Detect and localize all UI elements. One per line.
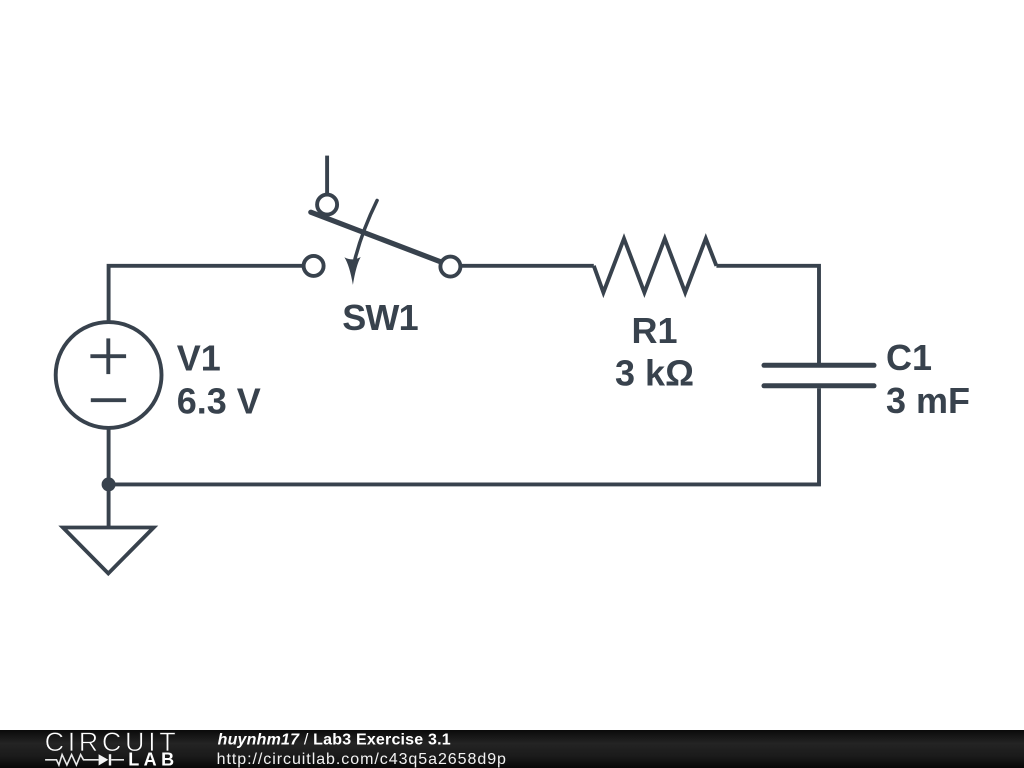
switch SW1 actuation arrow bbox=[344, 200, 377, 285]
wire: bottom return to V1 bbox=[109, 482, 821, 486]
wire: capacitor bottom lead bbox=[817, 388, 821, 484]
svg-text:3 kΩ: 3 kΩ bbox=[615, 352, 694, 393]
wire: resistor to capacitor C1 top bbox=[716, 266, 819, 363]
svg-text:huynhm17 / Lab3 Exercise 3.1: huynhm17 / Lab3 Exercise 3.1 bbox=[218, 732, 451, 749]
svg-text:3 mF: 3 mF bbox=[886, 380, 970, 421]
CircuitLab logo resistor-diode glyph bbox=[45, 754, 124, 765]
V1 minus sign bbox=[91, 398, 126, 402]
voltage source V1 bbox=[56, 322, 162, 428]
junction node bbox=[102, 477, 116, 491]
svg-text:R1: R1 bbox=[631, 310, 677, 351]
switch SW1 blade bbox=[311, 212, 441, 262]
svg-text:6.3 V: 6.3 V bbox=[177, 380, 261, 421]
wire: V1 top to switch left pole bbox=[109, 266, 303, 321]
switch SW1 top terminal circle bbox=[317, 195, 337, 215]
footer bar bbox=[0, 730, 1024, 768]
wire: switch to resistor R1 bbox=[462, 264, 594, 268]
svg-text:SW1: SW1 bbox=[342, 297, 418, 338]
wire: V1 bottom to junction bbox=[107, 429, 111, 485]
resistor R1 bbox=[594, 239, 717, 293]
capacitor C1 bbox=[764, 365, 874, 386]
switch SW1 left pole circle bbox=[304, 256, 324, 276]
ground symbol bbox=[63, 528, 154, 574]
svg-text:V1: V1 bbox=[177, 337, 221, 378]
V1 plus sign bbox=[90, 338, 126, 374]
switch SW1 right throw circle bbox=[440, 257, 460, 277]
svg-text:C1: C1 bbox=[886, 337, 932, 378]
wire: switch SW1 throw terminal stub bbox=[325, 156, 329, 194]
wire: junction to ground bbox=[107, 484, 111, 527]
svg-text:LAB: LAB bbox=[128, 750, 179, 768]
svg-text:http://circuitlab.com/c43q5a26: http://circuitlab.com/c43q5a2658d9p bbox=[217, 751, 507, 768]
